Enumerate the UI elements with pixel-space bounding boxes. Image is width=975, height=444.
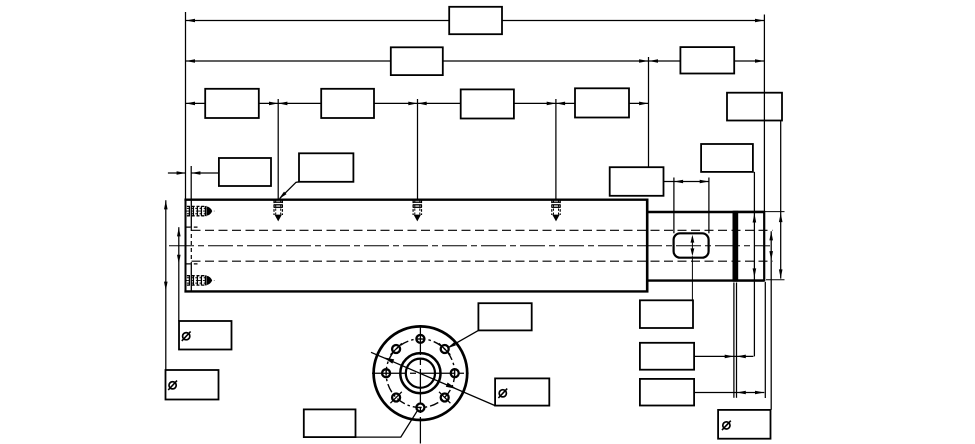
label box row1 xyxy=(449,7,502,34)
label box hole leader xyxy=(299,153,353,182)
dimension bore at cap (x=771.2) xyxy=(770,231,772,410)
leader keyway to box A xyxy=(691,256,693,300)
label box bore diameter xyxy=(179,321,232,350)
end cap thick left edge xyxy=(733,211,738,282)
cap width dimension (y=392.5) xyxy=(694,392,764,394)
extension line hole1 (x=278.2) xyxy=(277,99,279,199)
leader flange bottom box to hole xyxy=(356,410,418,437)
label box row3 a xyxy=(205,89,259,118)
flange crosshair horizontal xyxy=(372,372,469,374)
bolt hole left xyxy=(382,369,390,377)
label box chamfer xyxy=(219,158,271,186)
extension line left main (x=185.5) xyxy=(185,12,187,199)
extension line overall right (x=764.4) xyxy=(763,15,765,212)
label box shoulder xyxy=(610,167,664,196)
bolt hole lower-left xyxy=(392,394,400,402)
dimension shaft OD left (x=165.8) xyxy=(165,200,167,370)
keyway width dimension xyxy=(691,237,693,254)
keyway slot xyxy=(674,233,709,257)
dimension line row3 xyxy=(186,102,649,104)
ring extension lines down xyxy=(733,283,735,398)
tapped hole top 2 xyxy=(413,201,422,222)
flange outer circle xyxy=(374,326,468,420)
label box flange top xyxy=(478,303,531,330)
flange bolt circle xyxy=(386,339,455,408)
label box A keyway xyxy=(640,300,693,328)
label box bolt circle diameter xyxy=(495,378,549,405)
end cap outline xyxy=(734,212,765,281)
dimension bore left (x=178.8) xyxy=(178,227,180,321)
counterbore hidden edges xyxy=(186,226,197,228)
tapped hole left bottom xyxy=(185,275,215,285)
bolt hole lower-right xyxy=(441,394,449,402)
label box shaft diameter xyxy=(166,370,219,400)
chamfer edge line xyxy=(190,201,192,228)
keyway dimension line xyxy=(664,181,709,183)
flange crosshair vertical xyxy=(419,325,421,444)
extension line hole2 (x=417.5) xyxy=(417,99,419,199)
extension cap right edge down (x=765.3) xyxy=(764,282,766,398)
label box B ring xyxy=(640,343,694,370)
bore hidden line top xyxy=(192,229,773,231)
label box cap mid xyxy=(701,144,753,172)
extension line chamfer (x=191.2) xyxy=(190,166,192,199)
bore hidden line bottom xyxy=(192,260,773,262)
centerline shaft xyxy=(169,245,770,247)
flange inner circle xyxy=(406,359,435,388)
bolt hole right xyxy=(451,369,459,377)
bolt hole upper-left xyxy=(392,345,400,353)
bolt hole upper-right xyxy=(441,345,449,353)
dimension line row2 xyxy=(186,60,764,62)
bolt hole bottom xyxy=(416,404,424,412)
label box cap top right xyxy=(727,93,782,121)
label box row3 b xyxy=(321,89,374,118)
ring width dimension (y=356.4) xyxy=(694,355,753,357)
tapped hole left top xyxy=(185,206,215,216)
dimension line row1 xyxy=(186,20,764,22)
cap edge extension ticks xyxy=(764,211,784,213)
extension line hole3 (x=555.9) xyxy=(555,99,557,199)
label box row3 c xyxy=(461,89,514,118)
dimension cap OD right (x=780.7) xyxy=(780,121,782,279)
label box row2 left xyxy=(391,47,443,75)
extension line shoulder (x=648.5) xyxy=(648,57,650,167)
label box C cap width xyxy=(640,379,694,406)
leader flange top box to hole xyxy=(448,330,479,348)
chamfer dimension xyxy=(168,172,186,174)
label box flange bottom xyxy=(304,409,356,437)
tapped hole top 3 xyxy=(551,201,560,222)
bolt circle diameter leader xyxy=(371,352,495,405)
shaft big section outline xyxy=(184,198,648,200)
flange middle circle xyxy=(400,353,440,393)
keyway extension lines xyxy=(673,178,675,234)
label box D bore diameter xyxy=(718,410,770,439)
label box row3 d xyxy=(575,88,629,117)
bolt hole top xyxy=(416,335,424,343)
label box row2 right xyxy=(680,47,734,73)
shaft middle section outline xyxy=(647,211,764,213)
dimension cap inner (x=754.4) xyxy=(753,172,755,357)
tapped hole top 1 xyxy=(274,201,283,222)
leader line hole1 xyxy=(280,182,299,198)
